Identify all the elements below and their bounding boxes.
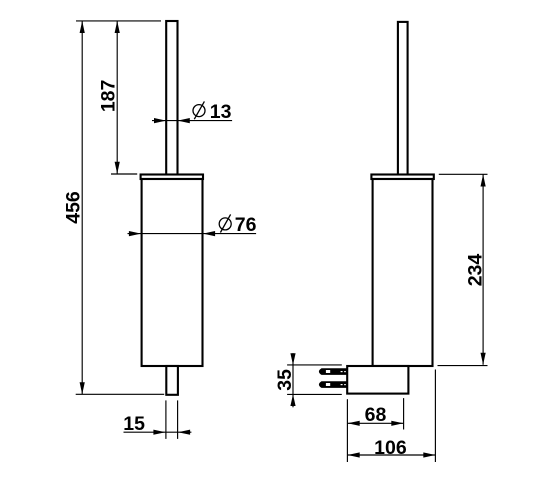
diameter symbol for 76 bbox=[219, 214, 231, 232]
extension line: bottom of foot (left view) bbox=[76, 393, 165, 395]
svg-text:456: 456 bbox=[62, 191, 84, 224]
arrow 106 right (right-pointing) bbox=[423, 452, 435, 457]
right view: lid bbox=[371, 175, 433, 180]
svg-text:106: 106 bbox=[374, 437, 407, 459]
arrow Ø76 right (left-pointing) bbox=[203, 231, 215, 236]
right view: wall bracket bbox=[347, 366, 408, 394]
arrow 106 left (left-pointing) bbox=[348, 452, 360, 457]
arrow 456 top (up) bbox=[80, 21, 85, 33]
extension line: top of handle (left view) bbox=[76, 20, 161, 22]
dimension 68 line bbox=[348, 422, 404, 424]
svg-text:13: 13 bbox=[210, 101, 232, 123]
mounting pin upper bbox=[319, 368, 347, 375]
arrowheads bbox=[80, 21, 486, 458]
arrow 15 left (right-pointing) bbox=[153, 430, 165, 435]
arrow 35 top (down-pointing) bbox=[290, 353, 295, 365]
dimension 234 line bbox=[482, 175, 484, 365]
arrow 187 top (up) bbox=[115, 21, 120, 33]
dimension 106 line bbox=[348, 454, 436, 456]
left view: lid bbox=[141, 175, 203, 180]
extension line: cylinder top (right view) bbox=[439, 173, 488, 175]
arrow Ø76 left (right-pointing) bbox=[129, 231, 141, 236]
dimension 456 line bbox=[81, 21, 83, 394]
mounting pin lower bbox=[319, 381, 347, 388]
arrow 456 bottom (down) bbox=[80, 382, 85, 394]
dimension 35 line bbox=[292, 353, 294, 407]
left view: brush handle rod bbox=[166, 21, 177, 176]
arrow 234 top (up) bbox=[481, 174, 486, 186]
arrow 35 bottom (up-pointing) bbox=[290, 394, 295, 406]
dimension 187 line bbox=[116, 21, 118, 174]
arrow 234 bottom (down) bbox=[481, 353, 486, 365]
extension line: bracket left (shared 68/106) bbox=[346, 399, 348, 462]
dimension line Ø13 bbox=[152, 120, 232, 122]
extension line: 68 right bbox=[403, 398, 405, 429]
svg-text:234: 234 bbox=[465, 254, 487, 287]
svg-text:15: 15 bbox=[123, 413, 145, 435]
right view: brush handle rod bbox=[398, 22, 408, 176]
svg-text:68: 68 bbox=[365, 404, 387, 426]
arrow 15 right (left-pointing) bbox=[178, 430, 190, 435]
arrow 68 left (left-pointing) bbox=[348, 421, 360, 426]
arrow 68 right (right-pointing) bbox=[391, 421, 403, 426]
arrow Ø13 left (right-pointing) bbox=[154, 118, 166, 123]
extension line: cylinder bottom (right view) bbox=[438, 365, 488, 367]
extension line: lid top (left view) bbox=[111, 173, 137, 175]
arrow Ø13 right (left-pointing) bbox=[178, 118, 190, 123]
dimension 15 line bbox=[124, 431, 192, 433]
svg-text:187: 187 bbox=[98, 80, 120, 113]
dimension line Ø76 bbox=[128, 233, 257, 235]
right view: cylinder body bbox=[373, 179, 433, 366]
diameter symbol for 13 bbox=[193, 101, 205, 119]
arrow 187 bottom (down) bbox=[115, 162, 120, 174]
extension line: 106 right bbox=[434, 370, 436, 463]
extension lines: bracket height (35) bbox=[287, 364, 342, 366]
extension lines: foot width (15) bbox=[165, 400, 167, 439]
left view: cylinder body bbox=[142, 179, 203, 366]
svg-text:35: 35 bbox=[274, 369, 296, 391]
left view: bottom foot bbox=[166, 366, 178, 395]
svg-text:76: 76 bbox=[235, 214, 257, 236]
